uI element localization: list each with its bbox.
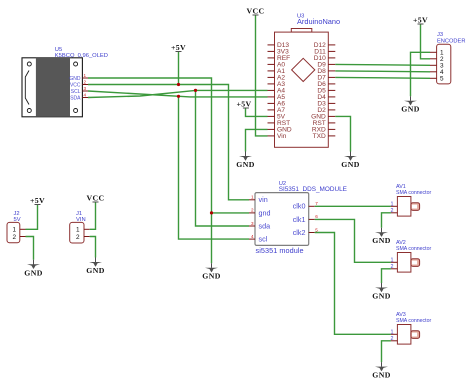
svg-text:SMA connector: SMA connector — [396, 190, 431, 196]
svg-text:ENCODER: ENCODER — [437, 39, 465, 45]
si5351 DDS module U2 — [255, 181, 347, 255]
wire J1 pin1 to VCC — [90, 203, 96, 230]
svg-text:GND: GND — [341, 160, 359, 169]
AV2 pin 1 — [391, 257, 398, 263]
svg-text:vin: vin — [259, 195, 268, 204]
svg-text:SI5351_DDS_MODULE: SI5351_DDS_MODULE — [279, 186, 347, 193]
+5V supply symbol near Arduino 5V pin — [236, 99, 251, 108]
ground symbol below AV3 — [372, 362, 390, 380]
svg-text:5: 5 — [440, 76, 444, 83]
svg-text:GND: GND — [401, 105, 419, 114]
Arduino right pin names — [311, 42, 326, 140]
J2 pin 1 — [13, 227, 26, 234]
wire OLED GND to vertical rail — [88, 78, 212, 263]
OLED pin 4 stub + number — [82, 93, 88, 98]
wire +5V to Arduino 5V — [246, 109, 268, 117]
svg-text:1: 1 — [391, 201, 394, 207]
OLED pin 1 stub + number — [82, 73, 88, 78]
svg-text:5: 5 — [315, 227, 318, 232]
VCC supply symbol above J1 — [87, 194, 105, 203]
svg-text:1: 1 — [76, 227, 80, 234]
wire SCL branch down to si5351 scl — [179, 96, 250, 239]
VCC supply symbol above Arduino — [247, 7, 265, 16]
J1 pin 2 — [76, 234, 90, 241]
svg-text:2: 2 — [251, 208, 254, 213]
svg-text:1: 1 — [84, 73, 87, 78]
Arduino left pin stubs — [268, 45, 275, 136]
svg-text:GND: GND — [372, 371, 390, 380]
AV2 pin 2 — [391, 264, 398, 270]
svg-text:SMA connector: SMA connector — [396, 246, 431, 252]
ground symbol below encoder — [401, 96, 419, 114]
wire Arduino D8 to encoder pin 4 — [335, 70, 430, 73]
OLED module U5 K5BCQ_0.96_OLED — [22, 47, 108, 117]
svg-text:2: 2 — [76, 234, 80, 241]
ground symbol below si5351 gnd rail — [202, 263, 220, 281]
svg-text:1: 1 — [13, 227, 17, 234]
+5V supply symbol above J2 — [30, 196, 45, 205]
svg-text:scl: scl — [259, 235, 268, 244]
wire Arduino D7 to encoder pin 5 — [335, 76, 430, 79]
wire clk1 to AV2 pin 1 — [315, 219, 391, 262]
wire OLED VCC to si5351 vin — [88, 85, 249, 200]
svg-text:clk0: clk0 — [293, 202, 306, 211]
OLED pin 3 stub + number — [82, 86, 88, 91]
junction dot +5V/VCC net — [177, 83, 180, 86]
svg-text:SDA: SDA — [70, 96, 81, 102]
Arduino Nano U3 — [275, 14, 341, 148]
svg-text:VCC: VCC — [247, 7, 265, 16]
ground symbol below AV2 — [372, 283, 390, 301]
junction dot SDA net — [194, 89, 197, 92]
wire +5V stem to OLED VCC net — [178, 52, 180, 85]
SMA connector AV2 — [396, 240, 431, 272]
encoder connector J3 — [437, 32, 466, 84]
wire Arduino D9 to encoder pin 3 — [335, 63, 430, 66]
AV1 pin 1 — [391, 201, 398, 207]
wire J2 pin1 to +5V — [26, 205, 38, 229]
si5351 pin 7 clk0 — [309, 201, 319, 206]
OLED pin 2 stub + number — [82, 80, 88, 85]
wire +5V to encoder pin 2 — [421, 25, 431, 59]
wire OLED SDA to Arduino A4 — [88, 90, 268, 97]
connector J2 5V — [7, 211, 21, 243]
J3 pin 4 — [430, 69, 444, 76]
si5351 pin 2 gnd — [249, 208, 255, 213]
wire VCC to Arduino Vin — [256, 16, 268, 136]
svg-text:+5V: +5V — [236, 99, 251, 108]
svg-text:+5V: +5V — [30, 196, 45, 205]
si5351 pin 4 scl — [249, 234, 255, 239]
svg-text:+5V: +5V — [413, 16, 428, 25]
svg-text:J3: J3 — [437, 32, 443, 38]
ground symbol below Arduino left GND — [236, 152, 254, 170]
svg-text:GND: GND — [372, 292, 390, 301]
svg-text:7: 7 — [315, 201, 318, 206]
svg-text:4: 4 — [251, 234, 254, 239]
svg-text:GND: GND — [236, 160, 254, 169]
svg-text:sda: sda — [259, 221, 271, 230]
connector J1 VIN — [70, 211, 86, 243]
svg-text:GND: GND — [202, 272, 220, 281]
ground symbol below AV1 — [372, 228, 390, 246]
si5351 pin 1 vin — [249, 195, 255, 200]
svg-text:2: 2 — [13, 234, 17, 241]
SMA connector AV1 — [396, 184, 431, 216]
svg-text:TXD: TXD — [313, 133, 326, 140]
svg-text:2: 2 — [391, 336, 394, 342]
wire clk0 to AV1 pin 1 — [315, 205, 391, 207]
junction dot SCL net — [177, 95, 180, 98]
svg-text:4: 4 — [84, 93, 87, 98]
junction dot GND net — [210, 211, 213, 214]
wire J1 pin2 to GND — [90, 237, 96, 258]
J2 pin 2 — [13, 234, 26, 241]
svg-text:2: 2 — [391, 264, 394, 270]
svg-text:1: 1 — [391, 329, 394, 335]
svg-text:1: 1 — [391, 257, 394, 263]
svg-text:U5: U5 — [55, 47, 62, 53]
si5351 pin 6 clk1 — [309, 214, 319, 219]
svg-text:VCC: VCC — [87, 194, 105, 203]
svg-text:GND: GND — [69, 76, 81, 82]
ground symbol below Arduino right GND — [341, 152, 359, 170]
svg-text:gnd: gnd — [259, 208, 271, 217]
svg-text:3: 3 — [84, 86, 87, 91]
ground symbol below J2 — [24, 260, 42, 278]
J3 pin 1 — [430, 50, 444, 57]
svg-text:+5V: +5V — [171, 43, 186, 52]
SMA connector AV3 — [396, 312, 431, 344]
svg-text:GND: GND — [372, 236, 390, 245]
wire AV1 pin 2 to GND — [382, 213, 391, 228]
+5V supply symbol above encoder — [413, 16, 428, 25]
wire GND branch to si5351 gnd — [212, 212, 250, 214]
ground symbol below J1 — [86, 258, 104, 276]
wire Arduino left GND down — [246, 129, 268, 151]
J3 pin 3 — [430, 63, 444, 70]
si5351 pin 5 clk2 — [309, 227, 319, 232]
svg-text:SMA connector: SMA connector — [396, 318, 431, 324]
svg-text:VCC: VCC — [70, 83, 81, 89]
AV1 pin 2 — [391, 208, 398, 214]
svg-text:SCL: SCL — [71, 89, 81, 95]
svg-text:clk1: clk1 — [293, 215, 306, 224]
svg-text:2: 2 — [84, 80, 87, 85]
svg-text:2: 2 — [391, 208, 394, 214]
wire AV2 pin 2 to GND — [382, 269, 391, 283]
AV3 pin 1 — [391, 329, 398, 335]
wire OLED SCL to Arduino A5 — [88, 91, 268, 97]
svg-text:si5351 module: si5351 module — [256, 246, 304, 255]
wire clk2 to AV3 pin 1 — [315, 233, 391, 335]
svg-text:GND: GND — [86, 266, 104, 275]
AV3 pin 2 — [391, 336, 398, 342]
wire SDA branch down to si5351 sda — [196, 90, 250, 226]
Arduino left pin names — [277, 42, 292, 140]
J3 pin 5 — [430, 76, 444, 83]
svg-text:ArduinoNano: ArduinoNano — [297, 17, 340, 26]
svg-text:clk2: clk2 — [293, 228, 306, 237]
wire Arduino right GND down — [335, 116, 350, 151]
+5V supply symbol near OLED — [171, 43, 186, 52]
wire encoder pin 1 to GND — [411, 52, 431, 96]
si5351 pin 3 sda — [249, 221, 255, 226]
J3 pin 2 — [430, 56, 444, 63]
J1 pin 1 — [76, 227, 90, 234]
svg-text:6: 6 — [315, 214, 318, 219]
svg-text:Vin: Vin — [277, 133, 287, 140]
wire AV3 pin 2 to GND — [382, 341, 391, 362]
Arduino right pin stubs — [328, 45, 335, 136]
svg-text:1: 1 — [251, 195, 254, 200]
wire J2 pin2 to GND — [26, 237, 34, 260]
svg-text:GND: GND — [24, 268, 42, 277]
svg-text:3: 3 — [251, 221, 254, 226]
